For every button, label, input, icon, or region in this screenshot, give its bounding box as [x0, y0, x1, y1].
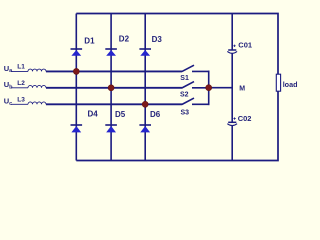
svg-text:D4: D4 [88, 109, 99, 118]
svg-text:D5: D5 [115, 110, 126, 119]
svg-text:C01: C01 [238, 41, 252, 50]
svg-text:D1: D1 [84, 36, 95, 45]
svg-text:M: M [239, 86, 245, 93]
svg-text:L1: L1 [17, 63, 25, 70]
svg-text:D2: D2 [119, 35, 130, 44]
svg-text:S3: S3 [181, 110, 190, 117]
svg-text:L3: L3 [17, 96, 25, 103]
svg-text:D6: D6 [150, 110, 161, 119]
svg-text:D3: D3 [152, 35, 163, 44]
svg-text:L2: L2 [17, 80, 25, 87]
svg-text:C02: C02 [238, 114, 252, 123]
svg-text:S1: S1 [180, 75, 189, 82]
svg-text:load: load [283, 80, 298, 89]
svg-text:S2: S2 [180, 91, 189, 98]
